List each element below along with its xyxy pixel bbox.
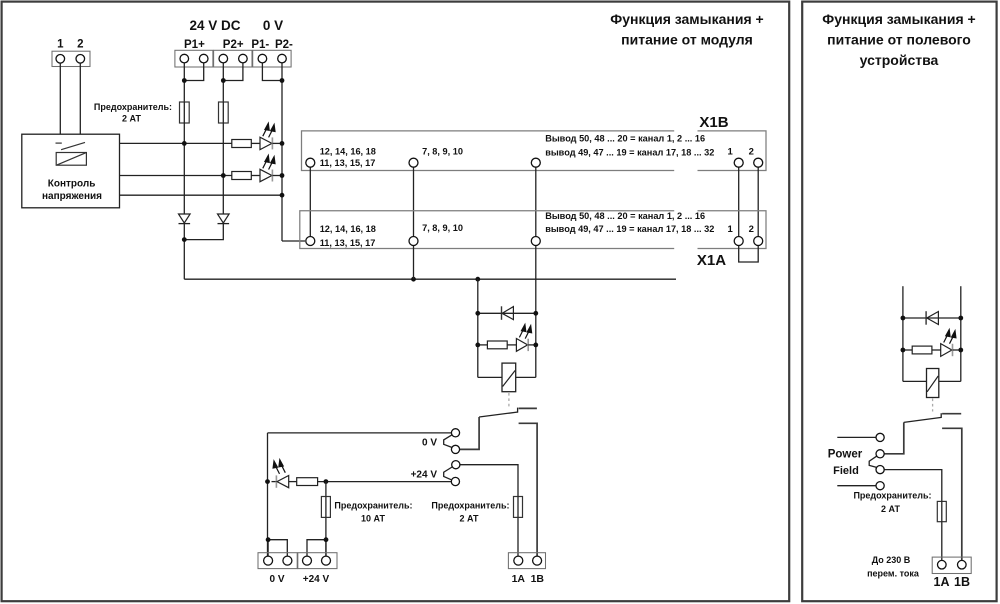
LED D9 arrows xyxy=(944,330,956,344)
terminal P1- xyxy=(258,54,267,63)
svg-text:Предохранитель:: Предохранитель: xyxy=(334,500,412,510)
LED D2 arrows xyxy=(263,155,275,169)
junction LED row xyxy=(475,343,480,348)
resistor R3 xyxy=(487,341,507,349)
wire R4 to +24V plug xyxy=(318,481,451,483)
svg-text:Вывод 50, 48 ... 20 = канал 1,: Вывод 50, 48 ... 20 = канал 1, 2 ... 16 xyxy=(545,133,705,143)
label fuse right xyxy=(853,491,931,515)
svg-text:перем. тока: перем. тока xyxy=(867,568,920,578)
junction P1+ xyxy=(182,78,187,83)
LED D6 xyxy=(516,339,527,352)
svg-text:До 230 В: До 230 В xyxy=(872,555,911,565)
svg-text:1: 1 xyxy=(727,146,733,157)
title right panel xyxy=(822,11,975,68)
fixed contact top xyxy=(519,407,537,409)
svg-text:7, 8, 9, 10: 7, 8, 9, 10 xyxy=(422,223,463,233)
svg-text:P2+: P2+ xyxy=(223,39,244,51)
terminal P2+ a xyxy=(219,54,228,63)
svg-text:+24 V: +24 V xyxy=(411,469,438,480)
wire blade to plug xyxy=(884,422,904,453)
svg-text:Контроль: Контроль xyxy=(48,179,96,190)
diode row relay K1 xyxy=(478,312,536,314)
jumper +24V terminals xyxy=(307,540,326,557)
svg-text:P1+: P1+ xyxy=(184,39,205,51)
+24V plug fork xyxy=(444,467,452,480)
svg-text:12, 14, 16, 18: 12, 14, 16, 18 xyxy=(320,146,376,156)
wire plug3 to fuse xyxy=(884,470,942,561)
plug fork 2-3 xyxy=(869,456,876,467)
resistor R1 xyxy=(232,140,252,148)
svg-text:Power: Power xyxy=(828,449,863,461)
junction bus X1A:7 xyxy=(411,277,416,282)
wire X2:2 to voltage monitor xyxy=(79,63,81,134)
label 1A 1B xyxy=(512,573,545,585)
LED D7 arrows xyxy=(273,460,285,474)
svg-text:питание от модуля: питание от модуля xyxy=(621,32,753,48)
svg-text:2 АТ: 2 АТ xyxy=(881,504,901,514)
svg-text:11, 13, 15, 17: 11, 13, 15, 17 xyxy=(320,238,376,248)
terminal block 0V box xyxy=(258,553,297,569)
junction row1 P2- xyxy=(280,141,285,146)
junction row3 P2- xyxy=(280,193,285,198)
wire row1 from U1 xyxy=(120,142,232,144)
resistor R2 xyxy=(232,172,252,180)
svg-text:вывод 49, 47 ... 19 = канал 17: вывод 49, 47 ... 19 = канал 17, 18 ... 3… xyxy=(545,224,714,234)
relay coil K1 xyxy=(478,376,502,378)
svg-text:2: 2 xyxy=(749,224,754,235)
jumper X1A 1-2 xyxy=(739,246,759,263)
svg-text:2 АТ: 2 АТ xyxy=(122,114,142,124)
dashed actuation link xyxy=(508,393,510,408)
svg-text:P1-: P1- xyxy=(251,39,269,51)
terminal P1+ a xyxy=(180,54,189,63)
svg-text:10 АТ: 10 АТ xyxy=(361,513,386,523)
svg-text:Предохранитель:: Предохранитель: xyxy=(94,102,172,112)
svg-text:0 V: 0 V xyxy=(269,574,284,585)
junction diodes xyxy=(182,237,187,242)
LED D9 xyxy=(941,344,952,357)
junction row2 P2+ xyxy=(221,173,226,178)
terminal block P2+ box xyxy=(214,50,252,67)
wire D3 down to bottom bus xyxy=(183,224,185,280)
svg-text:1: 1 xyxy=(727,224,733,235)
relay symbol inside U1 xyxy=(56,142,87,165)
wire X2:1 to voltage monitor xyxy=(59,63,61,134)
LED D2 xyxy=(260,169,272,181)
LED D7 xyxy=(275,475,277,487)
terminal block P1+ box xyxy=(175,50,213,67)
terminal X2:1 xyxy=(56,55,65,64)
frame right panel xyxy=(802,2,996,602)
wire P2+ a down xyxy=(222,63,224,103)
wire X1A:50 down to relay block xyxy=(535,246,537,378)
junction diode row xyxy=(475,311,480,316)
junction P2- xyxy=(280,78,285,83)
wire row2 from U1 xyxy=(120,175,232,177)
diode D5 xyxy=(501,306,503,320)
X1B labels xyxy=(320,133,715,168)
plug stub 1 xyxy=(837,436,876,438)
wire X1A:7 down to bus xyxy=(413,246,415,280)
svg-text:Предохранитель:: Предохранитель: xyxy=(853,491,931,501)
svg-text:0 V: 0 V xyxy=(263,18,283,33)
relay K2 right wire xyxy=(960,286,962,381)
dashed actuation link K2 xyxy=(932,399,934,412)
fixed contact top K2 xyxy=(942,413,961,415)
resistor R4 xyxy=(297,478,318,486)
label 1A 1B right xyxy=(934,575,970,589)
jumper 0V terminals xyxy=(268,540,287,557)
terminal X2:2 xyxy=(76,55,85,64)
X1A pin circles xyxy=(306,237,763,246)
svg-text:X1A: X1A xyxy=(697,252,726,269)
relay coil K2 xyxy=(903,380,927,382)
wire R1 to LED1 xyxy=(251,142,260,144)
label 230V xyxy=(867,555,920,578)
wire +24V plug to fuse 2AT xyxy=(460,465,518,557)
relay branch left wire xyxy=(477,279,479,377)
svg-text:2: 2 xyxy=(749,146,754,157)
svg-text:+24 V: +24 V xyxy=(303,574,330,585)
relay K2 left wire xyxy=(902,286,904,381)
svg-text:P2-: P2- xyxy=(275,39,293,51)
wire LED2 to bus xyxy=(272,175,282,177)
label fuse 2AT xyxy=(431,500,509,523)
label fuse 10AT xyxy=(334,500,412,523)
label U1 xyxy=(42,179,102,203)
junction row2 P2- xyxy=(280,173,285,178)
terminal block X2 box xyxy=(52,51,90,66)
wire fuse branch xyxy=(325,482,327,557)
svg-text:Функция замыкания +: Функция замыкания + xyxy=(822,11,975,27)
svg-text:0 V: 0 V xyxy=(422,437,437,448)
plug circles xyxy=(876,433,884,490)
resistor R5 xyxy=(912,346,932,354)
wires X1B down to X1A xyxy=(310,167,758,237)
svg-text:Функция замыкания +: Функция замыкания + xyxy=(610,11,763,27)
wire P1+ b jumper xyxy=(184,63,203,81)
wire F2 down xyxy=(222,123,224,214)
svg-text:Field: Field xyxy=(833,465,859,477)
plug stub 4 xyxy=(837,485,876,487)
terminal P2- xyxy=(278,54,287,63)
terminal block 1A 1B box xyxy=(508,553,545,569)
label fuse 2AT top xyxy=(94,102,172,124)
frame left panel xyxy=(2,2,790,602)
svg-text:1В: 1В xyxy=(531,573,545,585)
voltage monitor box U1 xyxy=(22,134,120,208)
svg-text:вывод 49, 47 ... 19 = канал 17: вывод 49, 47 ... 19 = канал 17, 18 ... 3… xyxy=(545,147,714,157)
svg-text:X1B: X1B xyxy=(699,114,728,131)
fuse F3 10AT xyxy=(321,497,330,518)
diode D3 xyxy=(179,214,191,223)
fuse F4 2AT xyxy=(514,497,523,518)
diode D4 xyxy=(218,214,230,223)
svg-text:11, 13, 15, 17: 11, 13, 15, 17 xyxy=(320,158,376,168)
svg-text:1А: 1А xyxy=(934,575,950,589)
fuse F1 2AT xyxy=(180,102,190,123)
svg-text:1А: 1А xyxy=(512,573,526,585)
svg-text:7, 8, 9, 10: 7, 8, 9, 10 xyxy=(422,146,463,156)
junction bus relay branch xyxy=(475,277,480,282)
fixed contact bottom xyxy=(519,423,538,556)
svg-text:2 АТ: 2 АТ xyxy=(459,513,479,523)
wire F1 down xyxy=(183,123,185,214)
connector X1A box xyxy=(300,211,766,249)
svg-text:Предохранитель:: Предохранитель: xyxy=(431,500,509,510)
wire P1- jumper xyxy=(262,63,282,81)
LED D6 arrows xyxy=(519,325,531,339)
wire P2+ b jumper xyxy=(223,63,243,81)
diode D8 xyxy=(925,311,927,325)
connector X1B box xyxy=(302,131,767,171)
svg-text:напряжения: напряжения xyxy=(42,191,102,202)
diode row K2 xyxy=(903,317,961,319)
terminal P1+ b xyxy=(199,54,208,63)
junction P2+ xyxy=(221,78,226,83)
wire P2- down xyxy=(281,63,283,241)
0V plug fork xyxy=(444,435,452,448)
terminal block P1-/P2- box xyxy=(253,50,291,67)
switch K2 contact xyxy=(904,417,942,422)
switch K1 contact xyxy=(479,412,518,417)
wire D4 jumper xyxy=(184,224,223,240)
bottom bus wire xyxy=(184,278,676,280)
terminal block right 1A 1B xyxy=(932,557,971,573)
wire LED1 to bus xyxy=(272,142,282,144)
svg-text:устройства: устройства xyxy=(860,52,939,68)
LED row K2 xyxy=(903,349,912,351)
wire R2 to LED2 xyxy=(251,175,260,177)
title left panel xyxy=(610,11,763,48)
svg-text:Вывод 50, 48 ... 20 = канал 1,: Вывод 50, 48 ... 20 = канал 1, 2 ... 16 xyxy=(545,211,705,221)
wire 0V branch down-left xyxy=(267,433,269,556)
X1A labels xyxy=(320,211,715,248)
LED D7 row xyxy=(265,479,270,484)
LED D1 arrows xyxy=(263,123,275,137)
svg-text:24 V DC: 24 V DC xyxy=(189,18,240,33)
svg-text:1В: 1В xyxy=(954,575,970,589)
LED D1 xyxy=(260,137,272,149)
junction row1 P1+ xyxy=(182,141,187,146)
fuse F2 2AT xyxy=(219,102,229,123)
terminal P2+ b xyxy=(239,54,248,63)
svg-text:12, 14, 16, 18: 12, 14, 16, 18 xyxy=(320,224,376,234)
svg-text:питание от полевого: питание от полевого xyxy=(827,32,971,48)
terminal block X2 (1,2) labels xyxy=(57,39,83,51)
LED row relay K1 xyxy=(478,344,488,346)
wire blade to 0V plug xyxy=(460,417,480,449)
fixed contact bottom K2 xyxy=(942,428,962,560)
terminal block +24V box xyxy=(298,553,337,569)
fuse F5 2AT xyxy=(937,501,946,521)
svg-text:2: 2 xyxy=(77,39,83,51)
svg-text:1: 1 xyxy=(57,39,64,51)
X1B pin circles xyxy=(306,158,763,167)
wire row3 from U1 xyxy=(120,194,283,196)
wire P1+ a down xyxy=(183,63,185,103)
wire P2- bus to X1A:11 xyxy=(282,240,305,242)
